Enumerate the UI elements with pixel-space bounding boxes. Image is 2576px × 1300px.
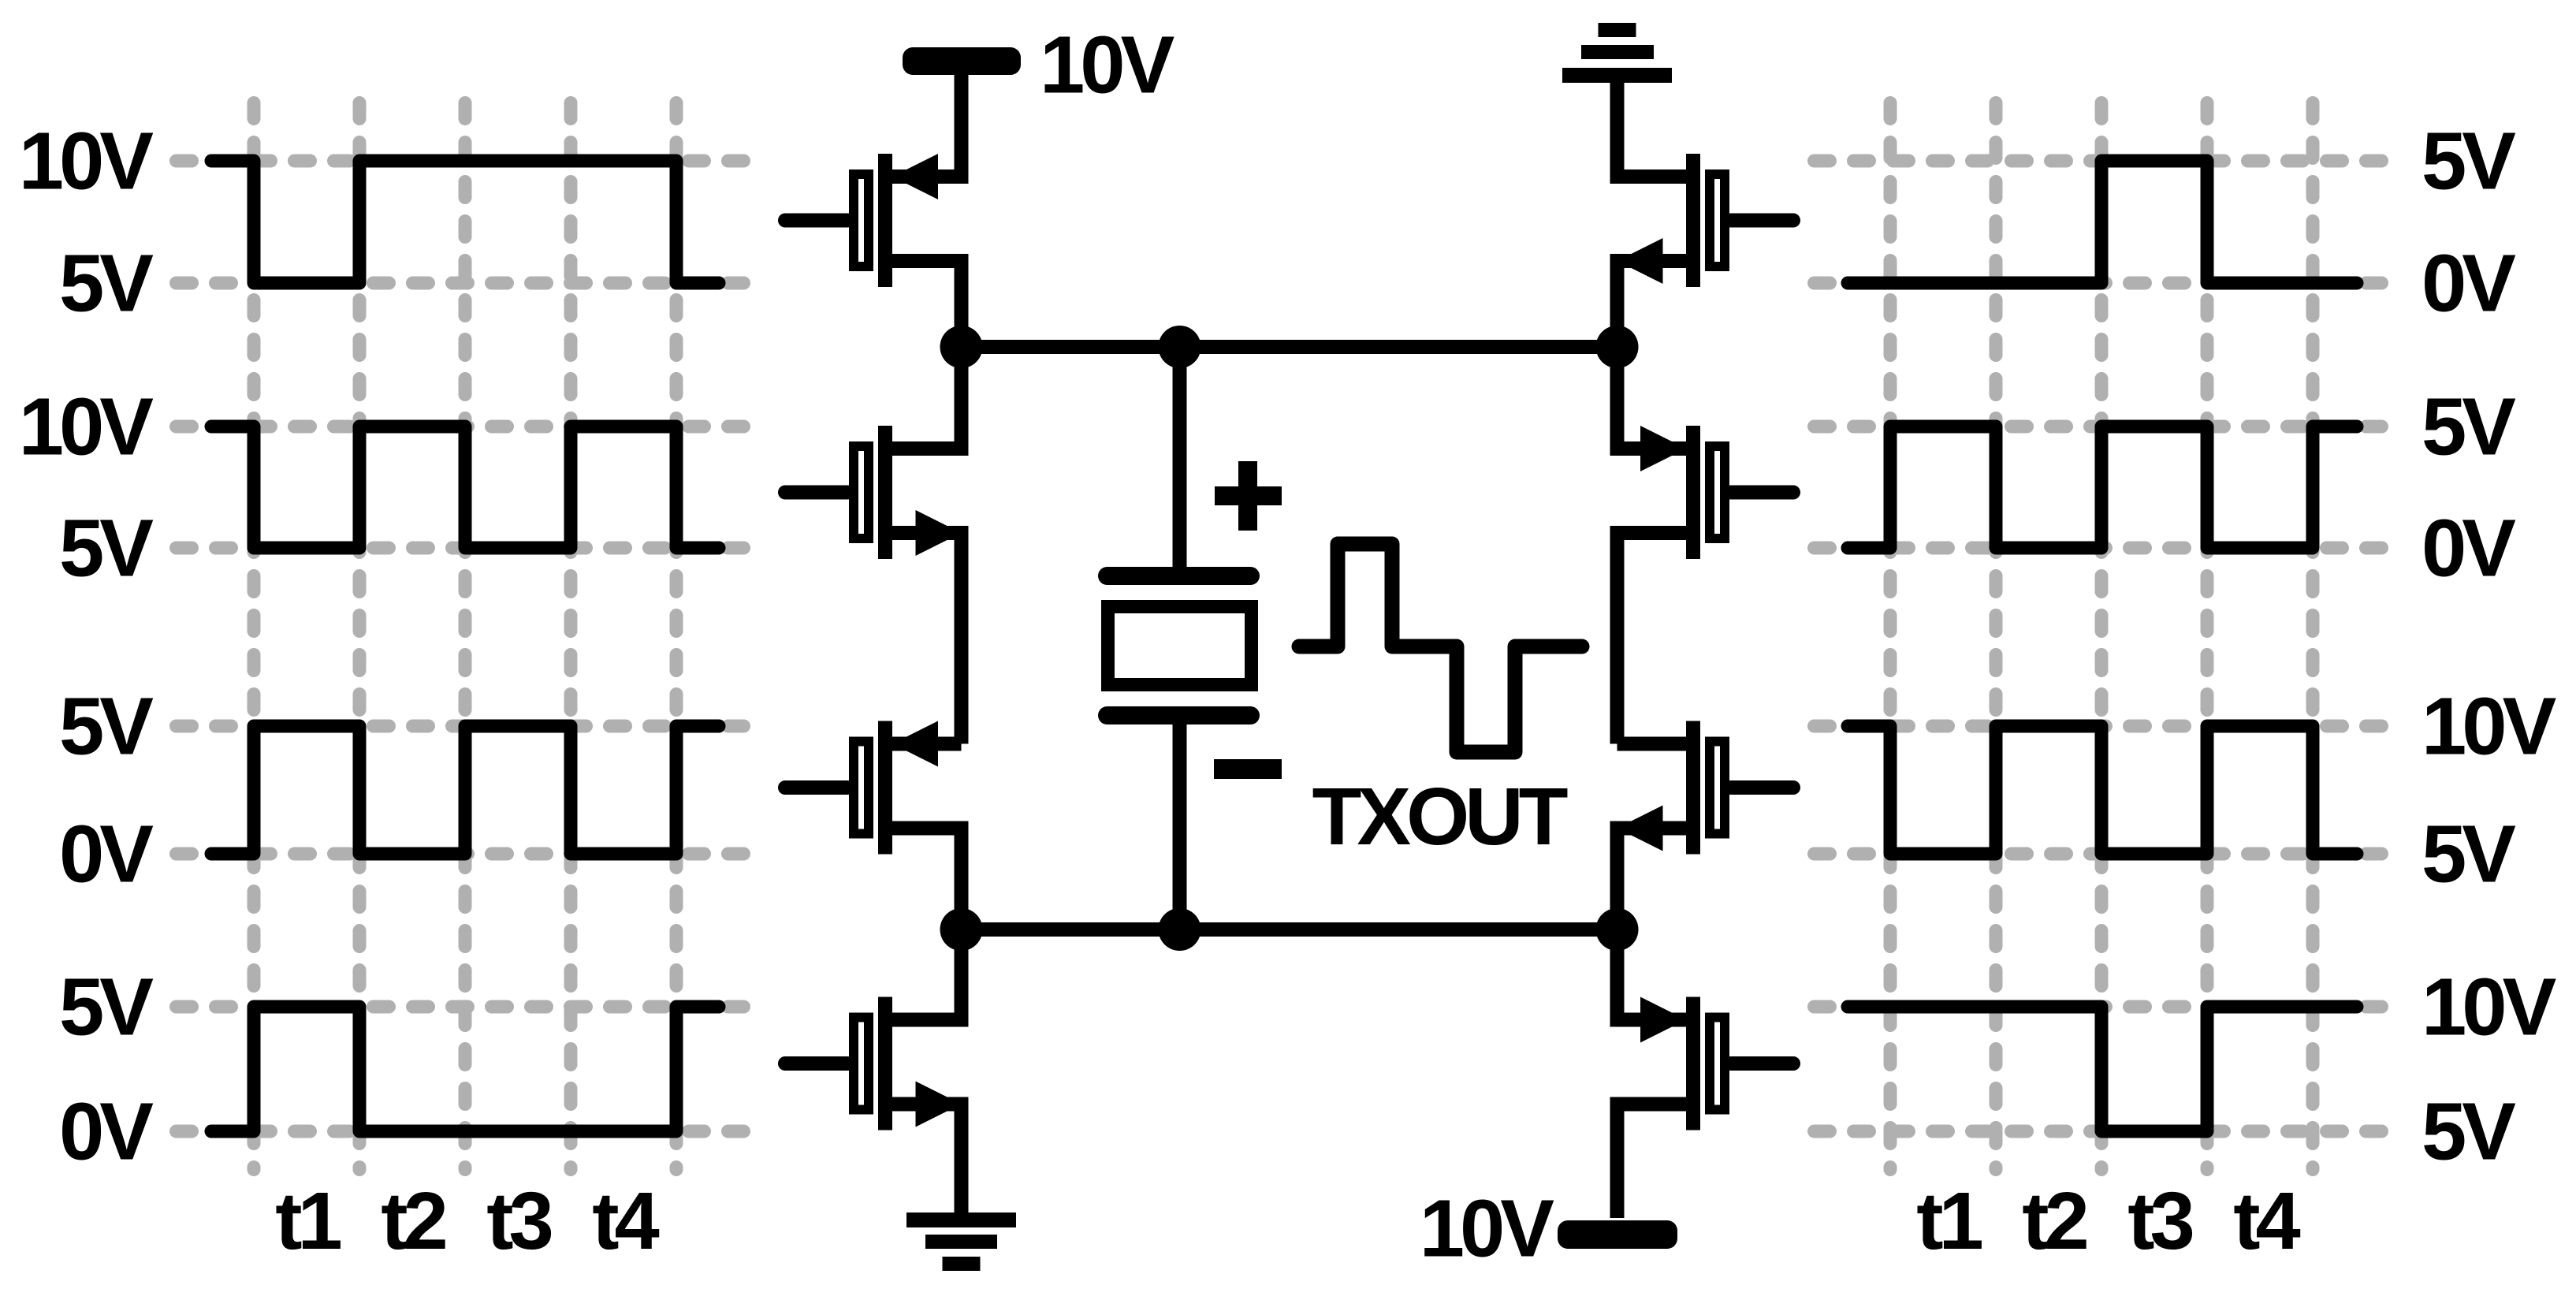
label 0V level (right plot 2) — [2422, 503, 2515, 594]
svg-text:t2: t2 — [2022, 1175, 2086, 1266]
transistor M4 (left half-bridge) — [785, 929, 962, 1218]
left time axis labels t1 t2 t3 t4 — [275, 1175, 659, 1266]
supply rail 10V bottom right — [1558, 1220, 1677, 1249]
svg-text:t1: t1 — [275, 1175, 341, 1266]
svg-text:10V: 10V — [1040, 20, 1174, 110]
svg-text:5V: 5V — [59, 503, 153, 594]
svg-text:t4: t4 — [592, 1175, 659, 1266]
piezo transducer XT1 — [1098, 567, 1260, 724]
label 0V level (left plot 3) — [59, 809, 153, 900]
right time axis labels t1 t2 t3 t4 — [1916, 1175, 2300, 1266]
ground top right (inverted) — [1562, 23, 1672, 134]
transistor M7 (right half-bridge) — [1617, 721, 1794, 930]
label 5V level (left plot 3) — [59, 681, 153, 772]
label 10V level (left plot 1) — [19, 116, 154, 207]
label 0V level (left plot 4) — [59, 1086, 153, 1177]
svg-text:5V: 5V — [2422, 116, 2515, 207]
transistor M5 (right half-bridge) — [1617, 75, 1794, 347]
label 5V level (right plot 2) — [2422, 382, 2515, 472]
svg-text:0V: 0V — [59, 1086, 153, 1177]
transistor M8 (right half-bridge) — [1617, 929, 1794, 1218]
label 5V level (right plot 1) — [2422, 116, 2515, 207]
right timing grid horizontal dashed level lines — [1815, 161, 2390, 1131]
junction dot top left — [940, 326, 983, 368]
svg-text:t4: t4 — [2233, 1175, 2300, 1266]
svg-text:5V: 5V — [2422, 382, 2515, 472]
waveform M7 gate drive (right plot 3) — [1848, 726, 2357, 854]
label 10V level (left plot 2) — [19, 382, 154, 472]
polarity minus sign — [1214, 759, 1282, 779]
waveform M4 gate drive (left plot 4) — [211, 1007, 719, 1131]
svg-text:10V: 10V — [1420, 1183, 1554, 1274]
junction dot bottom left — [940, 908, 983, 951]
polarity plus sign — [1215, 461, 1282, 531]
label 5V level (right plot 3) — [2422, 809, 2515, 900]
svg-text:TXOUT: TXOUT — [1312, 771, 1567, 862]
svg-text:t1: t1 — [1916, 1175, 1982, 1266]
svg-text:0V: 0V — [2422, 503, 2515, 594]
waveform M1 gate drive (left plot 1) — [211, 161, 719, 283]
label 5V level (left plot 1) — [59, 238, 153, 329]
junction dot bottom right — [1596, 908, 1639, 951]
transistor M1 (left half-bridge) — [785, 75, 962, 347]
svg-text:10V: 10V — [2422, 962, 2556, 1052]
wire top bus node VP — [962, 340, 1617, 354]
label 5V level (right plot 4) — [2422, 1086, 2515, 1177]
svg-text:10V: 10V — [2422, 681, 2556, 772]
label 10V bottom supply — [1420, 1183, 1554, 1274]
svg-text:0V: 0V — [59, 809, 153, 900]
wire bottom bus node VN — [962, 922, 1617, 937]
svg-text:5V: 5V — [2422, 809, 2515, 900]
transistor M2 (left half-bridge) — [785, 347, 962, 744]
waveform M6 gate drive (right plot 2) — [1848, 427, 2357, 548]
label 5V level (left plot 4) — [59, 962, 153, 1052]
svg-text:5V: 5V — [59, 681, 153, 772]
svg-text:t3: t3 — [486, 1175, 551, 1266]
waveform M5 gate drive (right plot 1) — [1848, 161, 2357, 283]
waveform M8 gate drive (right plot 4) — [1848, 1007, 2357, 1131]
junction dot bottom middle — [1159, 908, 1201, 951]
label TXOUT — [1312, 771, 1567, 862]
wire piezo top lead — [1173, 347, 1187, 572]
svg-text:t2: t2 — [381, 1175, 445, 1266]
svg-text:5V: 5V — [59, 962, 153, 1052]
junction dot top middle — [1159, 326, 1201, 368]
right timing grid vertical dashed lines — [1890, 103, 2313, 1170]
supply rail 10V top left — [903, 47, 1021, 75]
svg-text:5V: 5V — [59, 238, 153, 329]
ground bottom left — [906, 1159, 1016, 1271]
left timing grid horizontal dashed level lines — [177, 161, 752, 1131]
svg-text:5V: 5V — [2422, 1086, 2515, 1177]
label 5V level (left plot 2) — [59, 503, 153, 594]
TXOUT output waveform icon — [1299, 544, 1582, 752]
svg-text:10V: 10V — [19, 116, 154, 207]
waveform M2 gate drive (left plot 2) — [211, 427, 719, 548]
svg-text:0V: 0V — [2422, 238, 2515, 329]
label 0V level (right plot 1) — [2422, 238, 2515, 329]
label 10V top supply — [1040, 20, 1174, 110]
transistor M3 (left half-bridge) — [785, 721, 962, 930]
transistor M6 (right half-bridge) — [1617, 347, 1794, 744]
waveform M3 gate drive (left plot 3) — [211, 726, 719, 854]
svg-text:t3: t3 — [2127, 1175, 2192, 1266]
label 10V level (right plot 4) — [2422, 962, 2556, 1052]
svg-text:10V: 10V — [19, 382, 154, 472]
label 10V level (right plot 3) — [2422, 681, 2556, 772]
wire piezo bottom lead — [1173, 720, 1187, 929]
left timing grid vertical dashed lines — [254, 103, 676, 1170]
junction dot top right — [1596, 326, 1639, 368]
